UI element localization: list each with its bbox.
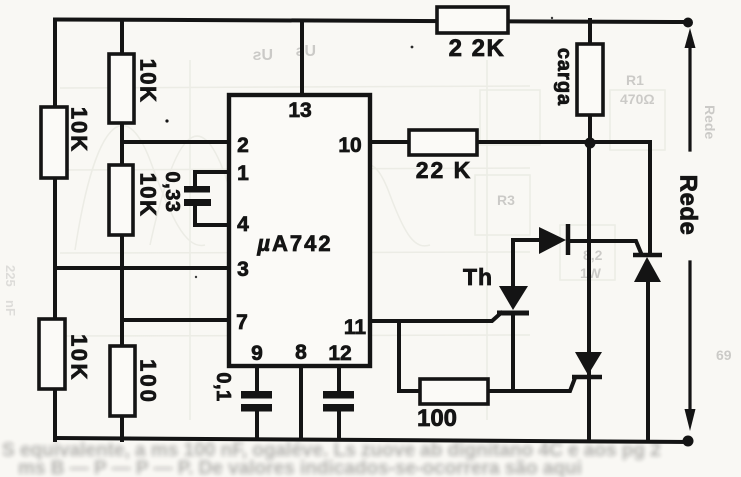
wire: Th cathode: [511, 313, 515, 391]
svg-text:3: 3: [237, 258, 249, 281]
op-amp IC U1 µA742 body: [229, 95, 370, 366]
capacitor 0,33 plates: [184, 186, 211, 206]
svg-text:8: 8: [295, 341, 307, 364]
wire: triac lower lead: [646, 282, 650, 441]
svg-text:225: 225: [3, 265, 18, 287]
thyristor Th: [497, 286, 529, 313]
SCR lower: [572, 352, 602, 377]
svg-text:Rede: Rede: [675, 175, 702, 236]
svg-text:nF: nF: [3, 300, 18, 316]
svg-text:8,2: 8,2: [583, 247, 603, 263]
stray speck: [165, 119, 168, 122]
wire: pin 3 input: [55, 266, 231, 270]
svg-text:ms B — P — P — P. De valores i: ms B — P — P — P. De valores indicados-s…: [18, 458, 582, 477]
rede arrowhead up: [685, 28, 696, 48]
node: bottom right terminal: [683, 436, 694, 447]
wire: pin 9 to capacitor: [255, 366, 259, 391]
svg-text:69: 69: [716, 347, 732, 363]
svg-text:µA742: µA742: [256, 231, 332, 256]
svg-text:1: 1: [237, 162, 249, 185]
svg-text:22 K: 22 K: [416, 157, 473, 183]
resistor 10K upper middle: [109, 54, 134, 123]
resistor 10K middle: [109, 165, 133, 235]
svg-text:Us: Us: [295, 43, 316, 60]
svg-text:2: 2: [237, 134, 249, 157]
resistor 22K top: [437, 7, 508, 33]
svg-text:2 2K: 2 2K: [449, 35, 506, 62]
wire: branch to 100 ohm resistor: [399, 321, 421, 391]
svg-text:7: 7: [236, 311, 248, 334]
capacitor 0,1 at pin 12: [323, 391, 354, 412]
wire: left vertical rail: [53, 20, 57, 441]
resistor 100 lower middle: [110, 346, 135, 416]
svg-text:100: 100: [417, 405, 457, 432]
svg-text:Th: Th: [463, 264, 493, 290]
svg-text:Rede: Rede: [702, 105, 718, 139]
rede arrowhead down: [685, 409, 696, 431]
node: top right terminal: [683, 18, 693, 28]
resistor 100 gate: [420, 379, 488, 404]
wire: bottom rail: [55, 438, 688, 442]
svg-text:0,1: 0,1: [212, 372, 234, 401]
svg-text:R1: R1: [626, 72, 644, 88]
resistor 10K lower left: [39, 319, 65, 389]
capacitor 0,1 at pin 9: [241, 391, 272, 412]
wire: top supply rail: [55, 20, 686, 23]
wire: Th anode to diode: [513, 238, 541, 242]
wire: center SCR vertical: [587, 143, 591, 440]
svg-text:12: 12: [328, 342, 351, 365]
svg-text:0,33: 0,33: [161, 172, 183, 213]
svg-text:10K: 10K: [136, 173, 161, 218]
wire: pin 2 input: [122, 140, 231, 144]
diode D1: [539, 224, 568, 255]
svg-text:4: 4: [237, 213, 249, 236]
svg-text:9: 9: [251, 342, 263, 365]
svg-text:10K: 10K: [67, 107, 92, 153]
svg-text:13: 13: [288, 99, 311, 122]
wire: pin 1 hook to capacitor: [195, 172, 229, 187]
resistor carga: [577, 44, 603, 115]
wire: rede arrow down line: [688, 262, 691, 412]
wire: capacitor to pin 4: [195, 205, 229, 225]
svg-text:Us: Us: [252, 47, 273, 64]
svg-text:carga: carga: [553, 48, 575, 106]
wire: pin 7 input: [122, 318, 231, 322]
svg-text:11: 11: [344, 316, 367, 339]
resistor 22K pin10: [409, 130, 477, 155]
wire: rede arrow up line: [688, 42, 691, 150]
node: carga / SCR junction: [585, 138, 596, 149]
wire: pin 12 to capacitor: [337, 366, 341, 391]
svg-text:R3: R3: [497, 192, 515, 208]
wire: right branch down to triac: [648, 142, 652, 254]
wire: 100 ohm to lower SCR gate: [487, 378, 575, 391]
triac / SCR right: [633, 255, 662, 282]
wire: pin 8 to bottom rail: [299, 366, 303, 440]
svg-text:10K: 10K: [136, 59, 161, 104]
wire: carga drop from top rail: [588, 20, 592, 143]
wire: middle vertical rail: [120, 20, 124, 440]
resistor 10K upper left: [41, 107, 67, 178]
wire: pin 11 gate drive: [370, 313, 501, 321]
wire: pin 13 supply: [300, 21, 304, 96]
svg-text:10K: 10K: [67, 334, 92, 382]
svg-text:470Ω: 470Ω: [620, 91, 655, 107]
wire: pin 10 to right branch: [370, 140, 650, 144]
wire: diode output to triac gate: [569, 241, 641, 253]
svg-text:100: 100: [136, 359, 161, 405]
wire: Th anode: [511, 240, 515, 288]
svg-text:10: 10: [338, 134, 361, 157]
